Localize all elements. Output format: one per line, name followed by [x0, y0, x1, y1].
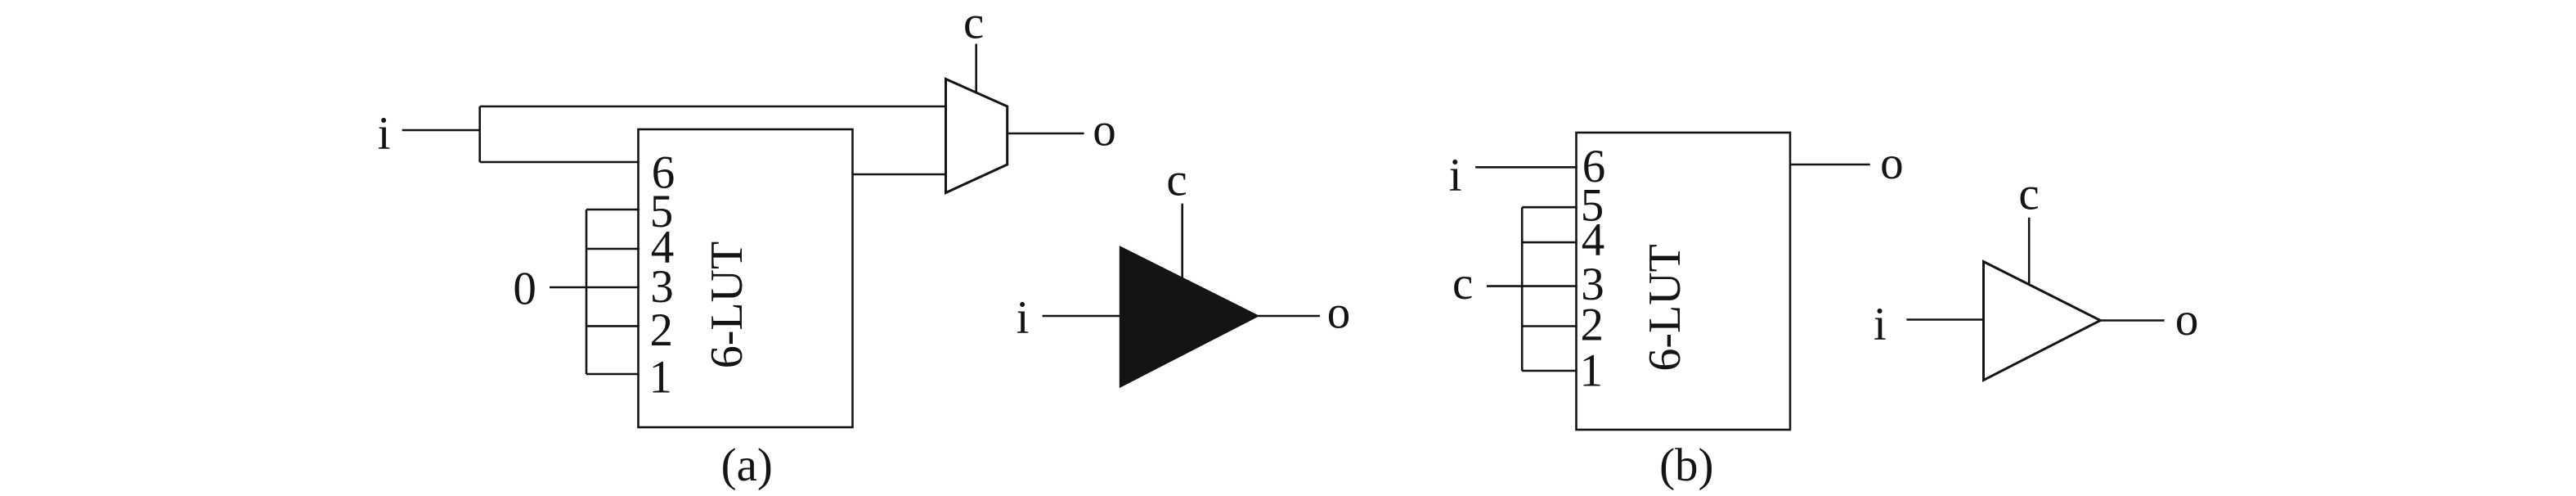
buffer U5 open triangle: [1984, 262, 2101, 381]
wire output (open buffer): [2100, 319, 2164, 322]
svg-text:i: i: [378, 108, 391, 160]
wire i lead (filled buffer): [1043, 315, 1121, 318]
svg-text:o: o: [1880, 138, 1904, 189]
svg-text:c: c: [963, 0, 984, 49]
svg-text:1: 1: [648, 352, 672, 404]
wire c control (a): [975, 44, 977, 92]
wire bypass to mux (a): [480, 106, 947, 108]
wire i lead (a): [402, 129, 480, 132]
wire i to pin6 (b): [1475, 166, 1577, 169]
wire pin5 (a): [586, 209, 640, 211]
wire pin1 (b): [1522, 370, 1577, 372]
svg-text:0: 0: [513, 264, 536, 315]
wire pin3 from c (b): [1487, 285, 1577, 287]
svg-text:1: 1: [1579, 345, 1603, 397]
svg-text:i: i: [1016, 292, 1030, 344]
wire output (filled buffer): [1257, 315, 1320, 318]
wire pin5 (b): [1522, 206, 1577, 209]
wire pin1 (a): [586, 373, 640, 376]
wire i lead (open buffer): [1906, 318, 1983, 321]
wire LUT output to mux (a): [853, 174, 947, 176]
mux U2 (a): [946, 79, 1008, 193]
svg-text:c: c: [1166, 155, 1187, 206]
svg-text:o: o: [1327, 287, 1351, 339]
6-LUT box U4 (b): [1577, 133, 1791, 430]
bus vertical (b): [1521, 207, 1524, 371]
svg-text:(a): (a): [721, 440, 773, 491]
wire pin2 (a): [586, 325, 640, 327]
wire pin4 (b): [1522, 241, 1577, 244]
svg-text:c: c: [1452, 258, 1473, 309]
svg-text:i: i: [1874, 299, 1887, 350]
svg-text:o: o: [1093, 105, 1116, 156]
6-LUT box U1 (a): [639, 129, 853, 427]
svg-text:o: o: [2175, 294, 2199, 345]
wire pin3 from 0 (a): [550, 286, 640, 289]
bus vertical (a): [586, 210, 588, 374]
wire c control (filled buffer): [1181, 204, 1183, 278]
wire c control (open buffer): [2028, 218, 2031, 283]
buffer U3 filled triangle: [1120, 248, 1257, 386]
svg-text:6-LUT: 6-LUT: [1640, 244, 1690, 372]
wire mux output (a): [1008, 133, 1084, 135]
wire output (b): [1790, 164, 1870, 166]
svg-text:2: 2: [650, 304, 674, 356]
wire pin6 (a): [480, 161, 640, 164]
wire junction vertical (a): [478, 106, 481, 162]
svg-text:6-LUT: 6-LUT: [702, 241, 752, 369]
svg-text:i: i: [1449, 150, 1462, 201]
svg-text:2: 2: [1581, 300, 1604, 351]
wire pin2 (b): [1522, 325, 1577, 327]
wire pin4 (a): [586, 248, 640, 250]
svg-text:c: c: [2018, 169, 2039, 220]
svg-text:(b): (b): [1659, 440, 1713, 491]
